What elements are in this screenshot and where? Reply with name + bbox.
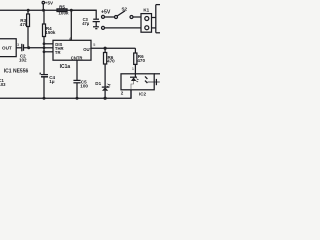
svg-text:150k: 150k: [45, 30, 56, 35]
svg-text:103: 103: [0, 82, 6, 87]
svg-text:47μ: 47μ: [82, 21, 90, 26]
svg-text:1μ: 1μ: [49, 79, 55, 84]
svg-text:OUT: OUT: [83, 47, 92, 52]
svg-text:OUT: OUT: [2, 45, 12, 50]
svg-text:S2: S2: [122, 7, 128, 12]
svg-text:TR: TR: [55, 50, 61, 55]
svg-text:+5V: +5V: [101, 10, 111, 16]
svg-text:100: 100: [80, 83, 88, 88]
svg-text:100k: 100k: [58, 10, 69, 15]
svg-text:470: 470: [137, 58, 145, 63]
svg-text:4: 4: [69, 37, 71, 41]
svg-text:47k: 47k: [20, 22, 28, 27]
svg-text:IC1 NE556: IC1 NE556: [4, 68, 29, 74]
svg-text:3: 3: [17, 43, 19, 47]
svg-text:102: 102: [19, 58, 27, 63]
svg-text:CNTR: CNTR: [71, 55, 83, 60]
svg-text:+5V: +5V: [45, 1, 53, 6]
svg-text:IC2: IC2: [139, 91, 147, 96]
svg-text:K1: K1: [143, 8, 149, 13]
svg-text:470: 470: [107, 59, 115, 64]
svg-text:D1: D1: [95, 81, 101, 86]
svg-text:IC1a: IC1a: [60, 64, 71, 70]
svg-text:5: 5: [93, 43, 95, 47]
svg-text:1: 1: [132, 67, 134, 71]
svg-text:R5: R5: [59, 5, 65, 10]
